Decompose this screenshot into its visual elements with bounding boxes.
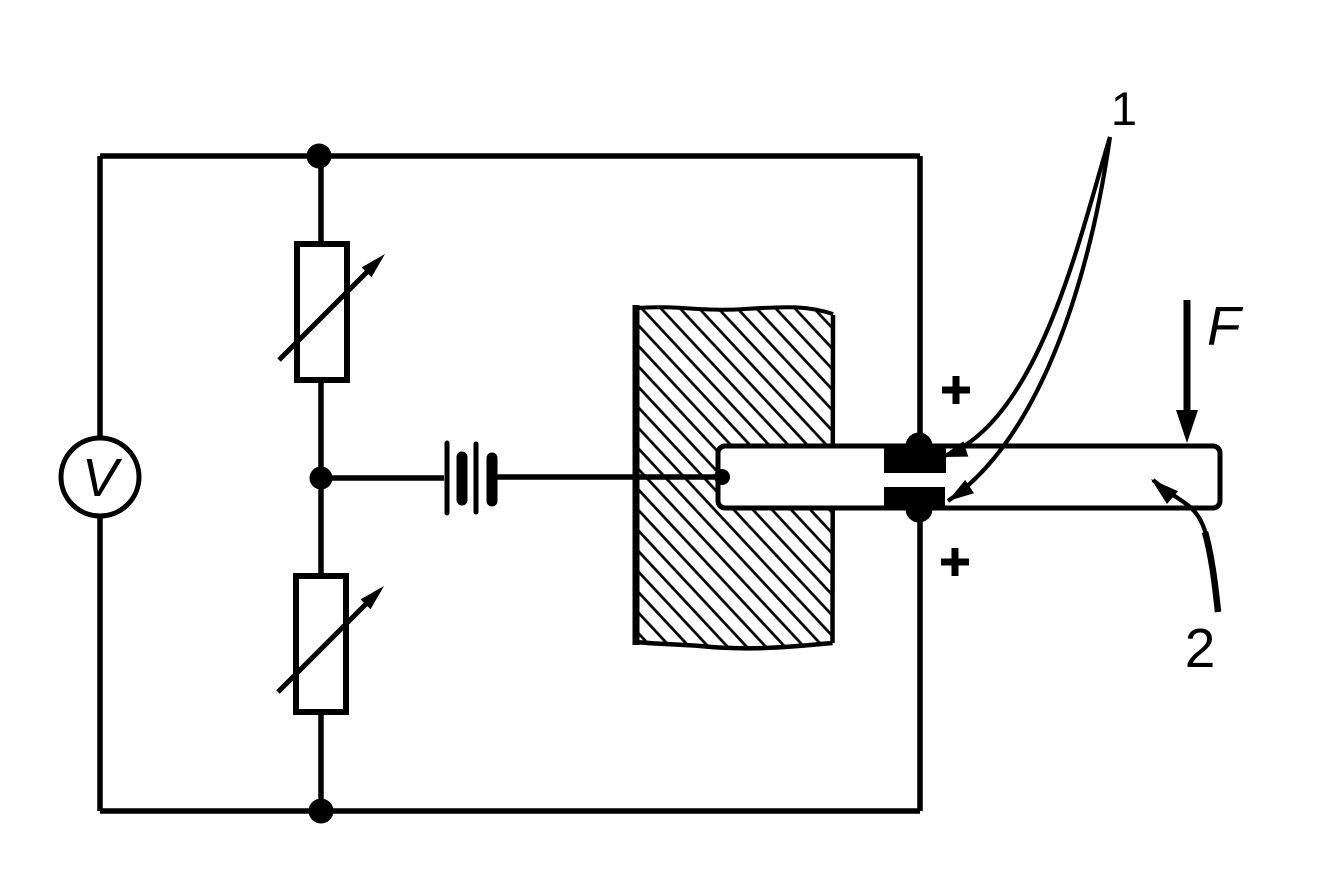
resistor R1 (variable, upper) xyxy=(279,244,385,380)
piezo element lower (black) xyxy=(884,487,945,510)
wire: left branch lower (voltmeter down to bottom bus) xyxy=(97,514,103,811)
node: lower contact dome on beam bottom edge xyxy=(906,496,933,523)
wire: divider middle segment (R1 to R2 through mid node) xyxy=(318,380,324,576)
node: top junction dot xyxy=(307,144,332,169)
battery (two cells) xyxy=(447,443,492,513)
node: bottom junction dot xyxy=(309,799,334,824)
node: wire terminal dot in clamped end xyxy=(714,469,730,485)
wire: bottom bus xyxy=(100,808,920,814)
wire: right branch upper (top bus down to beam) xyxy=(917,156,923,436)
plus sign upper polarity xyxy=(942,376,970,404)
resistor R2 (variable, lower) xyxy=(278,576,384,712)
leader curve 2 to beam xyxy=(1153,480,1218,610)
piezo element upper (black) xyxy=(884,444,946,473)
leader curve 1a to upper piezo xyxy=(941,137,1110,457)
wire: right branch lower (beam down to bottom bus) xyxy=(917,520,923,811)
voltmeter V xyxy=(61,438,139,516)
wire: mid node to battery xyxy=(321,475,444,481)
svg-text:2: 2 xyxy=(1185,617,1216,679)
svg-text:F: F xyxy=(1207,295,1244,357)
wire: divider top segment (top node to R1) xyxy=(318,156,324,244)
force arrow F xyxy=(1176,300,1198,443)
wire: divider bottom segment (R2 to bottom node) xyxy=(318,712,324,811)
wire: top bus from left branch to right branch xyxy=(100,153,920,159)
node: middle junction dot xyxy=(310,467,333,490)
leader curve 1b to lower piezo xyxy=(948,137,1110,501)
svg-text:1: 1 xyxy=(1111,82,1137,135)
wire: left branch upper (top bus down to voltmeter) xyxy=(97,156,103,440)
wire: battery to clamped end of beam xyxy=(497,474,720,480)
svg-text:V: V xyxy=(82,448,123,508)
node: upper contact dome on beam top edge xyxy=(906,433,933,460)
beam (cantilever) xyxy=(718,446,1220,508)
plus sign lower polarity xyxy=(941,548,969,576)
fixed wall (hatched support) xyxy=(636,305,833,648)
